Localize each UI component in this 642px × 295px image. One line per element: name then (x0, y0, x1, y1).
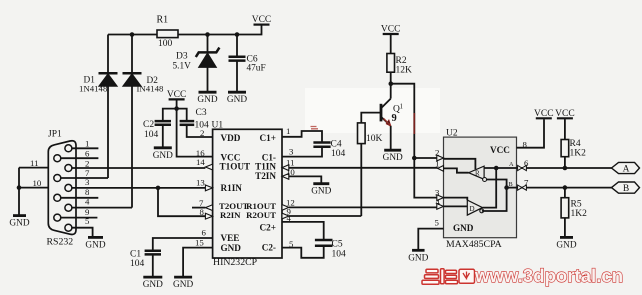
wire R2 to Q1 collector (390, 72, 392, 98)
buffer D driver U2 (467, 200, 482, 215)
arrow U1 pin7 T2OUT (205, 205, 212, 211)
svg-text:C5: C5 (332, 240, 343, 250)
svg-text:U2: U2 (446, 128, 458, 138)
wire B to D bubble (482, 188, 507, 211)
svg-text:47uF: 47uF (247, 64, 266, 74)
wire shell to ground (18, 168, 20, 216)
svg-text:GND: GND (453, 223, 474, 233)
wire U2 DE to D (444, 198, 468, 201)
wire JP1 pin7 to D1 (61, 177, 108, 179)
wire U2 pin8 to VCC (517, 119, 545, 148)
arrow U1 pin8 R2IN (205, 213, 212, 219)
svg-text:T1OUT: T1OUT (220, 162, 251, 172)
wire U1 pin10 to ground (289, 176, 322, 183)
wire T1IN to RO (289, 167, 438, 169)
wire VCC to R4 (564, 119, 566, 139)
svg-text:B: B (623, 184, 629, 194)
wire rail down to C6 (236, 35, 238, 57)
svg-text:GND: GND (173, 280, 193, 290)
svg-text:GND: GND (311, 187, 331, 197)
wire U2 RE to R enable (444, 159, 476, 170)
svg-text:VCC: VCC (252, 15, 272, 25)
svg-text:8: 8 (85, 187, 90, 197)
wire junction to C2 (163, 109, 177, 121)
JP1 pin circle col B 3 (54, 214, 61, 221)
ground C2 (154, 146, 172, 149)
svg-text:5: 5 (435, 218, 440, 228)
svg-text:5.1V: 5.1V (173, 62, 192, 72)
connector JP1 DB9 body (48, 141, 76, 235)
JP1 pin circle col A 4 (65, 224, 72, 231)
svg-text:7: 7 (524, 178, 529, 188)
wire C1 to ground (152, 255, 154, 277)
svg-text:VCC: VCC (490, 145, 510, 155)
junction RE-DE (412, 156, 417, 161)
svg-text:VCC: VCC (534, 109, 554, 119)
junction R4-A (563, 166, 568, 171)
wire D1 to DB9 pin7 (107, 86, 109, 178)
arrow U2 pin3 DE (437, 195, 444, 201)
svg-text:T1IN: T1IN (255, 162, 276, 172)
wire VCC to junction (176, 100, 178, 109)
svg-text:C2: C2 (143, 120, 154, 130)
wire D2 to DB9 pin4 (131, 86, 133, 207)
wire U2 pin5 to ground (418, 229, 443, 250)
junction rail-D3 (205, 32, 210, 37)
ground U1 pin15 (174, 276, 192, 279)
svg-text:A: A (509, 161, 514, 168)
wire junction to C3 (177, 109, 187, 121)
svg-text:6: 6 (202, 228, 207, 238)
svg-text:3: 3 (85, 177, 90, 187)
svg-text:MAX485CPA: MAX485CPA (446, 239, 502, 250)
terminal A (612, 162, 640, 173)
ground T2IN (313, 182, 329, 185)
wire junction to U2 RE (391, 84, 415, 158)
terminal B (612, 182, 640, 193)
svg-text:C3: C3 (196, 108, 207, 118)
arrow U2 pin1 RO (438, 166, 444, 172)
svg-text:VEE: VEE (221, 233, 240, 243)
op-amp U2 MAX485CPA box (444, 137, 517, 238)
ground D3 (199, 91, 217, 94)
ground JP1 shell (13, 214, 26, 217)
svg-text:www.3dportal.cn: www.3dportal.cn (474, 265, 623, 286)
svg-text:2: 2 (85, 158, 89, 168)
wire rail down to D2 (131, 35, 133, 74)
wire JP1 pin8 stub (61, 197, 99, 199)
svg-text:A: A (623, 164, 630, 174)
wire R2OUT to 10K branch (289, 215, 362, 217)
svg-text:2: 2 (200, 128, 204, 138)
svg-text:GND: GND (85, 240, 105, 250)
svg-text:R5: R5 (571, 200, 582, 210)
wire JP1 shell 11 (19, 167, 48, 169)
svg-text:8: 8 (200, 207, 205, 217)
junction rail-D2 (130, 32, 135, 37)
wire to U2 pin3 (414, 158, 437, 198)
watermark 三维网 glyphs (422, 269, 475, 285)
ground C6 (228, 91, 246, 94)
wire A to D apex (483, 168, 497, 208)
svg-text:GND: GND (197, 95, 217, 105)
wire B line to R5 (564, 188, 566, 198)
wire U1 pin15 to ground (183, 248, 213, 277)
svg-text:5: 5 (85, 216, 90, 226)
wire JP1 pin5 to ground (72, 228, 93, 237)
arrow U1 pin14 T1OUT (205, 164, 212, 170)
junction rail-C6 (235, 32, 240, 37)
transistor Q1 (381, 99, 391, 109)
junction R2-Q1 (389, 81, 394, 86)
wire U1 pin4 C2+ to C5 (282, 222, 324, 240)
arrow U1 pin12 R1OUT (282, 205, 289, 211)
wire JP1 pin6 stub (61, 157, 99, 159)
svg-text:R2IN: R2IN (220, 210, 241, 220)
svg-text:VCC: VCC (381, 25, 401, 35)
wire R4 to A line (564, 157, 566, 168)
JP1 pin circle col B 0 (54, 155, 61, 162)
svg-text:C1+: C1+ (260, 133, 276, 143)
svg-text:HIN232CP: HIN232CP (213, 257, 258, 268)
svg-text:GND: GND (153, 151, 173, 161)
wire U2 DI to D (444, 205, 468, 207)
wire rail down to D3 (207, 35, 209, 53)
svg-text:R2OUT: R2OUT (246, 210, 276, 220)
svg-text:2: 2 (435, 147, 439, 157)
arrow U1 pin13 R1IN (205, 185, 212, 191)
svg-text:VCC: VCC (167, 90, 187, 100)
VCC top right symbol (254, 24, 270, 26)
JP1 pin circle col B 1 (54, 175, 61, 182)
ground R5 (560, 236, 573, 239)
JP1 pin circle col A 0 (65, 145, 72, 152)
junction B internal (504, 185, 509, 190)
JP1 pin circle col A 3 (65, 204, 72, 211)
wire rail left to R1 (108, 34, 157, 36)
ground JP1 pin5 (88, 236, 103, 239)
wire JP1 pin9 stub (61, 217, 98, 219)
wire VCC to R2 (390, 35, 392, 54)
svg-text:R: R (475, 170, 480, 178)
svg-text:6: 6 (524, 158, 529, 168)
VCC symbol R2 (383, 33, 399, 35)
svg-text:B: B (509, 181, 513, 188)
wire U1 pin1 C1+ to C4 (282, 131, 322, 142)
wire JP1 pin3 to U1 R1IN (72, 187, 206, 189)
svg-text:D3: D3 (176, 52, 188, 62)
svg-text:VDD: VDD (221, 133, 241, 143)
wire B to pin7 (507, 187, 517, 189)
svg-text:1: 1 (85, 139, 89, 149)
wire pin3 branch to U1 R2IN (158, 188, 205, 216)
junction A internal (494, 166, 499, 171)
svg-text:R1IN: R1IN (221, 183, 243, 193)
wire VCC trunk to U1 pin 16 (177, 109, 213, 157)
junction VCC-C2-C3 (174, 106, 179, 111)
junction pin3 branch (156, 186, 161, 191)
svg-text:1: 1 (400, 103, 404, 111)
arrow U2 pin4 DI (437, 204, 444, 210)
svg-text:9: 9 (392, 113, 397, 124)
wire JP1 pin1 stub (72, 147, 99, 149)
svg-text:RS232: RS232 (47, 237, 74, 248)
svg-text:6: 6 (85, 149, 90, 159)
svg-text:IN4148: IN4148 (137, 84, 164, 94)
svg-text:GND: GND (227, 95, 247, 105)
wire JP1 shell 10 (19, 187, 48, 189)
svg-text:11: 11 (30, 158, 38, 168)
arrow U1 pin9 R2OUT (282, 213, 289, 219)
ground C1 (143, 276, 162, 279)
svg-text:8: 8 (523, 139, 528, 149)
svg-text:1: 1 (286, 126, 290, 136)
wire C2 to ground (162, 125, 164, 147)
svg-text:GND: GND (143, 280, 163, 290)
op-amp U1 HIN232CP box (213, 129, 282, 258)
wire R input to A (484, 167, 516, 169)
wire Q1 emitter to ground (390, 126, 392, 150)
svg-text:5: 5 (289, 239, 294, 249)
svg-text:15: 15 (195, 237, 204, 247)
VCC symbol U2 pin8 (536, 117, 552, 119)
wire rail down to D1 (107, 35, 109, 74)
svg-text:GND: GND (408, 253, 428, 263)
arrow U2 pin2 RE (437, 155, 444, 161)
ground U2 pin5 (412, 249, 425, 252)
svg-text:104: 104 (332, 249, 347, 259)
svg-text:3: 3 (289, 147, 294, 157)
svg-text:10K: 10K (366, 134, 383, 144)
wire C6 to ground (236, 61, 238, 92)
wire U1 pin5 C2- to C5 (282, 246, 324, 258)
resistor R1 (157, 30, 178, 38)
svg-text:1K2: 1K2 (570, 148, 587, 158)
svg-text:104: 104 (331, 149, 346, 159)
svg-text:GND: GND (9, 219, 29, 229)
wire U1 pin6 VEE to C1 (153, 238, 213, 251)
svg-text:VCC: VCC (555, 109, 575, 119)
wire U1 pin7 stub (192, 207, 205, 209)
buffer R receiver U2 (469, 166, 485, 179)
svg-text:104: 104 (144, 130, 159, 140)
bidirectional arrow U2 pin7 (518, 185, 527, 190)
JP1 pin circle col B 2 (54, 194, 61, 201)
wire U1 pin3 C1- to C4 (282, 147, 322, 157)
bidirectional arrow U2 pin6 (518, 165, 527, 170)
svg-text:14: 14 (196, 157, 205, 167)
svg-text:C4: C4 (331, 140, 342, 150)
svg-text:1K2: 1K2 (571, 209, 588, 219)
svg-text:R1: R1 (157, 15, 169, 26)
svg-text:R4: R4 (570, 139, 581, 149)
svg-text:12K: 12K (396, 65, 413, 75)
junction shell wires (17, 185, 22, 190)
VCC symbol R4 (557, 117, 573, 119)
wire B line (517, 187, 612, 189)
wire R5 to ground (564, 218, 566, 237)
svg-text:4: 4 (85, 197, 90, 207)
svg-text:JP1: JP1 (48, 130, 62, 140)
svg-text:GND: GND (383, 153, 403, 163)
svg-text:C2+: C2+ (260, 222, 276, 232)
ground Q1 (384, 149, 401, 152)
svg-text:C2-: C2- (262, 242, 276, 252)
wire U2 RO to R apex (444, 168, 469, 172)
wire 10K down to R2OUT net (360, 144, 362, 216)
svg-text:D: D (470, 205, 475, 213)
wire D3 to ground (207, 67, 209, 91)
junction R5-B (563, 185, 568, 190)
wire JP1 pin2 to U1 T1OUT (72, 167, 206, 169)
svg-text:T2IN: T2IN (255, 171, 276, 181)
svg-text:11: 11 (286, 158, 294, 168)
wire R bubble to B (487, 180, 507, 188)
svg-text:GND: GND (221, 243, 242, 253)
svg-text:1N4148: 1N4148 (79, 84, 108, 94)
svg-text:3: 3 (435, 188, 440, 198)
svg-text:10: 10 (33, 178, 42, 188)
wire JP1 pin4 to D2 (72, 207, 132, 209)
VCC symbol mid (169, 98, 185, 100)
svg-text:C1: C1 (130, 250, 141, 260)
wire C3 to U1 pin 2 (187, 125, 213, 137)
JP1 pin circle col A 1 (65, 165, 72, 172)
svg-text:13: 13 (196, 178, 205, 188)
svg-text:1: 1 (435, 159, 439, 169)
arrow U1 pin11 T1IN (282, 165, 289, 171)
svg-text:GND: GND (556, 240, 576, 250)
svg-text:4: 4 (287, 213, 292, 223)
wire Q1 base to 10K (361, 113, 381, 123)
wire R1OUT to U2 DI (289, 206, 438, 208)
wire A line (517, 167, 612, 169)
arrow U1 pin10 T2IN (282, 174, 289, 180)
JP1 pin circle col A 2 (65, 184, 72, 191)
svg-text:104: 104 (130, 259, 145, 269)
svg-text:100: 100 (158, 39, 173, 49)
wire R1 to VCC corner (178, 25, 262, 35)
wire to U2 pin2 (414, 157, 437, 159)
